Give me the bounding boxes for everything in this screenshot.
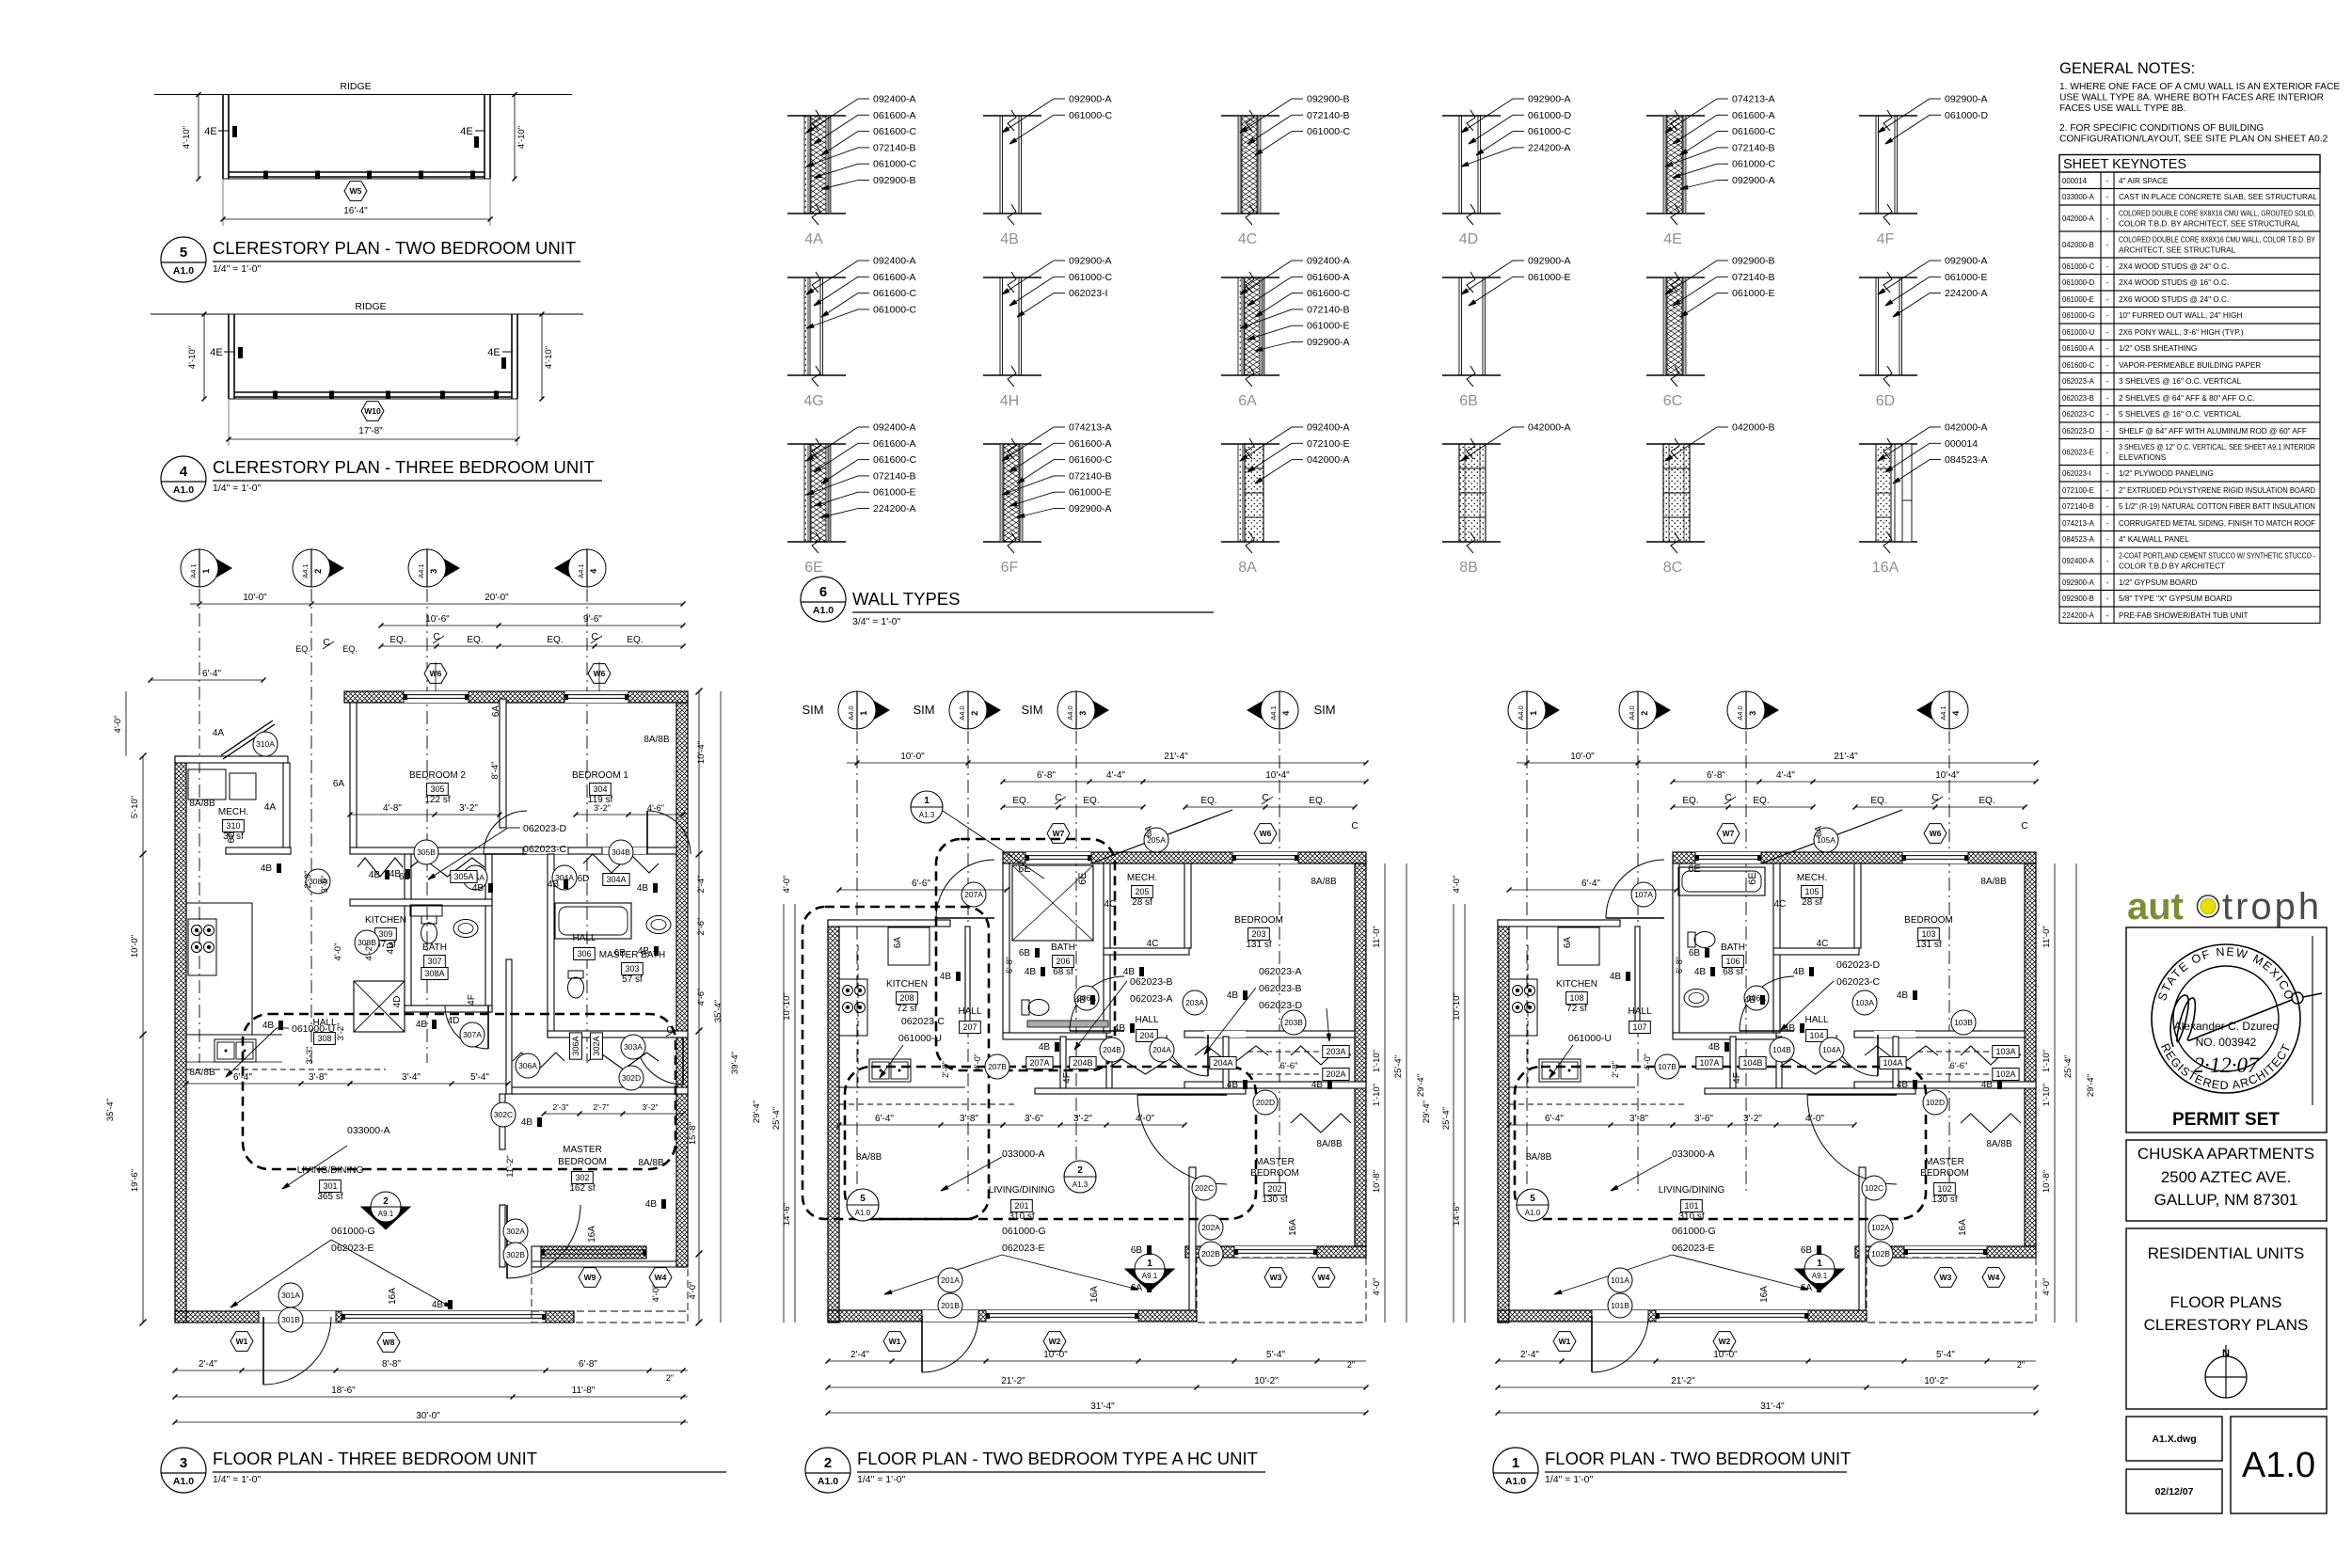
svg-text:042000-A: 042000-A [1528,422,1571,434]
svg-text:EQ.: EQ. [1083,796,1099,806]
svg-text:8A/8B: 8A/8B [189,1068,215,1078]
plan 3 right dims [666,689,740,1326]
svg-text:062023-C: 062023-C [901,1016,946,1027]
svg-text:207A: 207A [1029,1058,1049,1068]
svg-text:3'-2": 3'-2" [336,1023,346,1041]
svg-text:304B: 304B [612,847,630,857]
svg-text:107: 107 [1632,1022,1646,1032]
svg-text:2·12·07: 2·12·07 [2194,1053,2261,1077]
svg-text:3'-2": 3'-2" [1743,1114,1762,1124]
svg-text:A1.0: A1.0 [818,1476,838,1487]
clerestory plan 5 title [161,237,580,282]
svg-text:CORRUGATED METAL SIDING, FINIS: CORRUGATED METAL SIDING, FINISH TO MATCH… [2119,519,2315,528]
svg-text:204: 204 [1139,1031,1153,1040]
svg-text:30'-0": 30'-0" [416,1411,440,1421]
svg-text:CLERESTORY PLAN - THREE BEDROO: CLERESTORY PLAN - THREE BEDROOM UNIT [213,457,595,477]
svg-text:10'-4": 10'-4" [696,741,707,764]
svg-text:CHUSKA APARTMENTS: CHUSKA APARTMENTS [2137,1145,2314,1163]
svg-text:16A: 16A [1288,1219,1298,1236]
svg-text:104A: 104A [1822,1045,1841,1054]
svg-text:061000-U: 061000-U [898,1033,942,1044]
svg-text:062023-A: 062023-A [1259,966,1302,977]
svg-text:2: 2 [824,1455,832,1471]
svg-text:1: 1 [924,796,930,806]
svg-text:6A: 6A [1238,393,1257,409]
svg-text:130 sf: 130 sf [1262,1195,1287,1205]
svg-text:W1: W1 [236,1337,248,1346]
svg-text:033000-A: 033000-A [2062,193,2095,201]
svg-text:3'-0": 3'-0" [320,876,330,894]
svg-text:10'-0": 10'-0" [900,752,925,762]
svg-text:4B: 4B [548,879,560,890]
svg-text:3'-8": 3'-8" [960,1114,978,1124]
svg-text:061600-A: 061600-A [1069,438,1112,450]
svg-text:1/4" = 1'-0": 1/4" = 1'-0" [857,1474,905,1485]
svg-text:302A: 302A [506,1227,525,1236]
svg-text:4B: 4B [645,1199,658,1210]
svg-text:8A/8B: 8A/8B [1526,1152,1552,1163]
svg-text:224200-A: 224200-A [2062,611,2095,620]
svg-text:6'-4": 6'-4" [233,1072,252,1083]
svg-text:1: 1 [1817,1259,1822,1269]
svg-text:6'-4": 6'-4" [1545,1114,1564,1124]
wall type 4H [983,256,1113,410]
svg-text:4: 4 [1951,711,1961,716]
svg-text:4E: 4E [210,347,222,358]
plan 1 - two bedroom A1.0 ref circles [1517,1189,1549,1221]
svg-text:FLOOR PLAN - TWO BEDROOM TYPE: FLOOR PLAN - TWO BEDROOM TYPE A HC UNIT [857,1449,1258,1468]
svg-text:11'-8": 11'-8" [572,1386,596,1396]
svg-text:061600-C: 061600-C [2062,361,2095,370]
svg-text:042000-A: 042000-A [1945,422,1988,434]
svg-text:6A: 6A [1814,826,1824,838]
top dimension rows [190,603,683,605]
svg-text:-: - [2106,535,2109,544]
svg-text:EQ.: EQ. [467,635,483,645]
svg-text:SIM: SIM [913,703,934,717]
svg-text:31'-4": 31'-4" [1090,1402,1115,1412]
svg-text:4D: 4D [392,996,403,1008]
svg-text:29'-4": 29'-4" [752,1101,762,1123]
svg-text:061000-C: 061000-C [1307,126,1351,137]
svg-text:-: - [2106,214,2109,223]
svg-text:310: 310 [226,821,240,831]
svg-text:062023-D: 062023-D [2062,427,2095,436]
svg-text:092900-A: 092900-A [1069,94,1112,105]
svg-text:308: 308 [317,1034,331,1043]
svg-text:202D: 202D [1256,1098,1275,1107]
svg-text:1'-10": 1'-10" [2042,1084,2052,1106]
svg-text:WALL TYPES: WALL TYPES [852,589,960,609]
svg-text:6'-4": 6'-4" [1581,879,1600,889]
svg-text:104B: 104B [1742,1058,1762,1068]
svg-text:102B: 102B [1871,1249,1890,1259]
svg-text:A4.0: A4.0 [1628,705,1636,720]
plan 3 closet shelving zigzags [358,854,659,1069]
svg-text:6'-8": 6'-8" [1005,957,1014,974]
autotroph logo [2127,886,2322,927]
svg-text:305: 305 [430,784,444,794]
svg-text:5 1/2" (R-19) NATURAL COTTON F: 5 1/2" (R-19) NATURAL COTTON FIBER BATT … [2119,502,2315,511]
svg-text:2'-4": 2'-4" [1520,1350,1539,1360]
clerestory plan 4 - three bedroom unit [151,301,583,446]
svg-text:2 SHELVES @ 64" AFF & 80" AFF: 2 SHELVES @ 64" AFF & 80" AFF O.C. [2119,394,2255,403]
svg-text:6E: 6E [1688,863,1700,875]
svg-text:-: - [2106,557,2109,565]
svg-text:061000-G: 061000-G [1002,1226,1046,1237]
plan 1 - two bedroom wall tags [1526,826,2012,1303]
svg-text:2'-8": 2'-8" [941,1061,950,1078]
svg-text:4" KALWALL PANEL: 4" KALWALL PANEL [2119,535,2189,544]
svg-text:8A/8B: 8A/8B [638,1158,664,1168]
svg-text:303: 303 [625,964,639,974]
wall type 8A [1221,422,1350,577]
svg-text:1/4" = 1'-0": 1/4" = 1'-0" [213,483,261,494]
svg-text:224200-A: 224200-A [1945,288,1988,299]
svg-text:W7: W7 [1723,829,1735,838]
section marker 4 [555,549,606,587]
svg-text:SHEET KEYNOTES: SHEET KEYNOTES [2063,157,2186,172]
svg-text:310 sf: 310 sf [1009,1212,1034,1222]
plan 3 bottom dims [173,1268,689,1425]
svg-text:MECH.: MECH. [1797,873,1827,883]
svg-text:306A: 306A [518,1061,537,1070]
svg-text:35'-4": 35'-4" [105,1099,116,1121]
svg-text:072140-B: 072140-B [1307,110,1350,121]
svg-text:062023-A: 062023-A [1130,993,1173,1005]
svg-text:A1.X.dwg: A1.X.dwg [2152,1433,2196,1445]
svg-text:4A: 4A [213,728,225,738]
svg-text:4A: 4A [264,802,277,813]
svg-text:6'-6": 6'-6" [1280,1061,1298,1071]
svg-text:4B: 4B [638,946,650,957]
svg-text:107A: 107A [1634,890,1653,899]
svg-text:104A: 104A [1883,1058,1902,1068]
svg-text:307: 307 [427,957,441,966]
svg-text:COLOR T.B.D BY ARCHITECT: COLOR T.B.D BY ARCHITECT [2119,562,2225,571]
plan 2 - two bedroom type A HC room labels [886,873,1299,1222]
svg-text:4F: 4F [1877,231,1895,247]
plan 3 title [161,1448,726,1493]
svg-text:8A: 8A [1238,560,1257,576]
svg-text:107A: 107A [1699,1058,1719,1068]
plan 1 - two bedroom bottom dims [1496,1268,2039,1416]
svg-text:A1.0: A1.0 [2242,1446,2315,1485]
svg-text:305A: 305A [453,872,473,881]
svg-text:6B: 6B [1131,1245,1143,1256]
svg-text:28 sf: 28 sf [1802,897,1822,908]
svg-text:16A: 16A [1958,1219,1968,1236]
svg-text:4C: 4C [1104,899,1117,910]
svg-text:EQ.: EQ. [389,635,405,645]
svg-text:HALL: HALL [1135,1015,1158,1025]
svg-text:061000-U: 061000-U [292,1023,335,1035]
svg-text:W5: W5 [350,186,362,196]
svg-text:309: 309 [378,929,392,939]
plan 1 - two bedroom living arrows [1554,1157,1808,1294]
svg-text:061000-E: 061000-E [1732,288,1775,299]
svg-text:-: - [2106,449,2109,457]
svg-text:4'-0": 4'-0" [1805,1114,1824,1124]
svg-text:062023-E: 062023-E [1002,1243,1045,1254]
svg-text:102A: 102A [1871,1223,1890,1232]
svg-text:092900-B: 092900-B [2062,594,2094,603]
svg-text:4A: 4A [804,231,823,247]
svg-text:CLERESTORY PLANS: CLERESTORY PLANS [2144,1316,2309,1334]
svg-text:5 SHELVES @ 16" O.C. VERTICAL: 5 SHELVES @ 16" O.C. VERTICAL [2119,410,2242,419]
svg-text:6: 6 [819,584,827,600]
svg-text:303A: 303A [624,1042,643,1052]
svg-text:310A: 310A [256,739,275,749]
svg-text:3'-2": 3'-2" [594,803,611,813]
svg-text:103B: 103B [1954,1018,1973,1027]
plan 1 - two bedroom doors [1592,810,1902,1372]
svg-text:16A: 16A [388,1288,398,1305]
architect stamp box [2126,927,2327,1132]
svg-text:4F: 4F [1732,1072,1742,1084]
svg-text:4B: 4B [1227,990,1239,1001]
svg-text:061600-A: 061600-A [1732,110,1775,121]
plan 3 keynote leaders [226,823,567,1254]
svg-text:MECH.: MECH. [218,807,248,817]
plan 3 interior dims [184,762,686,1303]
svg-text:COLORED DOUBLE CORE 8X8X16 CMU: COLORED DOUBLE CORE 8X8X16 CMU WALL, COL… [2119,236,2315,245]
svg-text:NO. 003942: NO. 003942 [2196,1036,2257,1049]
svg-text:BEDROOM: BEDROOM [1920,1168,1969,1179]
svg-text:4'-0": 4'-0" [333,943,343,961]
svg-text:2": 2" [666,1373,674,1383]
plan 2 - two bedroom type A HC bath fixtures [1012,865,1108,1027]
svg-text:SIM: SIM [802,703,823,717]
plan 1 - two bedroom bath fixtures [1678,867,1765,1007]
wall type 4C [1221,94,1351,248]
svg-text:061000-C: 061000-C [1069,110,1113,121]
plan 2 - two bedroom type A HC keynote leaders [880,966,1330,1254]
svg-text:10'-4": 10'-4" [1265,770,1290,781]
svg-text:6B: 6B [614,948,627,958]
svg-text:107B: 107B [1658,1062,1677,1071]
svg-text:2'-4": 2'-4" [696,876,707,894]
plan 1 - two bedroom kitchen [1509,927,1686,1104]
svg-text:72 sf: 72 sf [897,1004,917,1014]
plan 2 - two bedroom type A HC A1.0 ref circles [847,791,1096,1221]
svg-text:8'-4": 8'-4" [490,762,501,780]
svg-text:4B: 4B [262,1021,275,1031]
wall type 4D [1442,94,1572,248]
svg-text:6B: 6B [399,872,411,882]
svg-text:RIDGE: RIDGE [355,301,386,312]
svg-text:1. WHERE ONE FACE OF A CMU WAL: 1. WHERE ONE FACE OF A CMU WALL IS AN EX… [2059,82,2340,92]
svg-text:3: 3 [429,569,438,574]
plan 2 - two bedroom type A HC interior walls [1003,863,1366,1310]
svg-text:2'-4": 2'-4" [199,1359,217,1370]
svg-text:306A: 306A [571,1036,580,1055]
svg-text:6A: 6A [1563,937,1573,949]
svg-text:072140-B: 072140-B [2062,502,2094,511]
svg-text:-: - [2106,410,2109,419]
svg-text:2'-3": 2'-3" [553,1102,569,1112]
svg-text:201: 201 [1014,1201,1028,1211]
svg-text:BEDROOM: BEDROOM [1250,1168,1299,1179]
svg-text:062023-E: 062023-E [2062,449,2094,457]
svg-text:061000-E: 061000-E [873,487,916,499]
svg-text:072140-B: 072140-B [1307,304,1350,315]
svg-text:11'-0": 11'-0" [2042,926,2052,948]
svg-text:2": 2" [2017,1360,2025,1370]
svg-text:062023-C: 062023-C [523,844,567,855]
svg-text:57 sf: 57 sf [622,974,643,985]
svg-text:-: - [2106,377,2109,386]
plan 3 boxed callouts [421,871,629,1060]
svg-text:6E: 6E [804,560,823,576]
svg-text:204B: 204B [1073,1058,1092,1068]
svg-text:4E: 4E [204,126,216,137]
svg-text:6C: 6C [1663,393,1682,409]
svg-text:2X4 WOOD STUDS @ 24" O.C.: 2X4 WOOD STUDS @ 24" O.C. [2119,262,2229,271]
svg-text:-: - [2106,295,2109,304]
svg-text:2X4 WOOD STUDS @ 16" O.C.: 2X4 WOOD STUDS @ 16" O.C. [2119,278,2229,287]
svg-text:062023-C: 062023-C [2062,410,2095,419]
svg-text:-: - [2106,262,2109,271]
svg-text:202C: 202C [1195,1183,1214,1193]
svg-text:2. FOR SPECIFIC CONDITIONS OF: 2. FOR SPECIFIC CONDITIONS OF BUILDING [2059,123,2264,134]
svg-text:301: 301 [323,1181,337,1191]
plan 3 interior walls [175,699,688,1267]
grid lines [856,731,858,1195]
svg-text:A4.0: A4.0 [847,705,855,720]
svg-text:1: 1 [1529,711,1538,716]
svg-text:3 SHELVES @ 12" O.C. VERTICAL,: 3 SHELVES @ 12" O.C. VERTICAL, SEE SHEET… [2119,443,2315,451]
svg-text:084523-A: 084523-A [2062,535,2095,544]
svg-text:4B: 4B [1708,1042,1721,1053]
svg-text:062023-I: 062023-I [1069,288,1107,299]
svg-text:W2: W2 [1049,1337,1061,1346]
svg-text:10" FURRED OUT WALL, 24" HIGH: 10" FURRED OUT WALL, 24" HIGH [2119,311,2242,320]
svg-text:061600-A: 061600-A [873,110,916,121]
svg-text:4B: 4B [1610,972,1622,982]
wall type 8C [1646,422,1775,577]
svg-text:A9.1: A9.1 [378,1210,394,1218]
svg-text:106: 106 [1725,957,1740,966]
svg-text:2'-9": 2'-9" [303,871,313,889]
plan 3 callout circles [253,732,645,1332]
wall types title [801,577,1214,627]
svg-text:A1.3: A1.3 [919,811,935,819]
svg-text:W1: W1 [1559,1337,1571,1346]
svg-text:4E: 4E [487,347,500,358]
plan 2 - two bedroom type A HC elevation marker [1125,1254,1174,1291]
svg-text:EQ.: EQ. [627,635,643,645]
svg-text:061600-C: 061600-C [1307,288,1351,299]
svg-text:10'-4": 10'-4" [1935,770,1960,781]
svg-text:061600-C: 061600-C [873,126,917,137]
svg-text:A9.1: A9.1 [1812,1272,1828,1280]
svg-text:FACES USE WALL TYPE 8B.: FACES USE WALL TYPE 8B. [2059,103,2185,114]
svg-text:061000-E: 061000-E [1945,272,1988,283]
svg-text:4H: 4H [1000,393,1019,409]
plan 2 - two bedroom type A HC bottom dims [826,1268,1369,1416]
svg-text:25'-4": 25'-4" [1393,1055,1404,1078]
svg-text:042000-B: 042000-B [1732,422,1775,434]
section markers [1508,691,1559,729]
svg-text:4B: 4B [1311,1080,1324,1090]
svg-text:2'-4": 2'-4" [850,1350,869,1360]
svg-text:062023-D: 062023-D [1259,1000,1303,1011]
svg-text:4B: 4B [1025,967,1037,977]
svg-text:062023-E: 062023-E [331,1243,374,1254]
svg-text:COLOR T.B.D. BY ARCHITECT, SEE: COLOR T.B.D. BY ARCHITECT, SEE STRUCTURA… [2119,220,2300,229]
svg-text:4B: 4B [940,972,952,982]
svg-text:-: - [2106,486,2109,495]
svg-text:5: 5 [1530,1194,1535,1204]
svg-text:6'-8": 6'-8" [1037,770,1056,781]
svg-text:C: C [2021,821,2027,832]
section markers [838,691,889,729]
svg-text:W3: W3 [1940,1273,1952,1282]
plan 1 - two bedroom boxed callouts [1696,1046,2021,1081]
svg-text:061600-A: 061600-A [873,272,916,283]
wall type 16A [1859,422,1988,577]
plan 3 wall type tags [189,705,670,1310]
svg-text:061000-C: 061000-C [1732,159,1776,170]
svg-text:6B: 6B [1689,948,1701,958]
svg-text:HALL: HALL [1804,1015,1828,1025]
svg-text:4B: 4B [1793,967,1805,977]
plan 1 - two bedroom room labels [1556,873,1969,1222]
svg-text:6A: 6A [1131,1283,1143,1293]
svg-text:A1.0: A1.0 [173,1476,194,1487]
svg-text:304A: 304A [606,875,626,884]
svg-text:4B: 4B [1897,990,1909,1001]
svg-text:4F: 4F [1062,1072,1073,1084]
svg-text:LIVING/DINING: LIVING/DINING [297,1165,364,1176]
svg-text:-: - [2106,241,2109,249]
svg-text:5'-10": 5'-10" [130,796,140,818]
svg-text:6E: 6E [1747,872,1758,884]
svg-text:062023-D: 062023-D [1836,959,1881,971]
svg-text:4B: 4B [1784,1023,1796,1034]
svg-text:072140-B: 072140-B [873,142,916,153]
floor plan 1 - two bedroom [1508,691,2039,1195]
svg-text:092400-A: 092400-A [873,422,916,434]
svg-text:1: 1 [1147,1259,1152,1269]
svg-text:3'-6": 3'-6" [1694,1114,1713,1124]
svg-text:305B: 305B [417,847,436,857]
svg-text:4B: 4B [1000,231,1019,247]
svg-text:6B: 6B [1801,1245,1813,1256]
svg-text:20'-0": 20'-0" [485,593,509,603]
svg-text:10'-0": 10'-0" [1570,752,1595,762]
wall type 8B [1442,422,1571,577]
svg-text:MASTER: MASTER [563,1145,602,1155]
svg-text:105: 105 [1804,887,1819,896]
svg-text:-: - [2106,278,2109,287]
svg-text:205: 205 [1135,887,1149,896]
wall type 4G [787,256,917,410]
wall type 6F [983,422,1113,577]
svg-text:000014: 000014 [2062,177,2088,185]
plan 3 closet X box [354,981,405,1032]
svg-text:6'-4": 6'-4" [875,1114,894,1124]
svg-text:A1.0: A1.0 [855,1209,871,1217]
svg-text:16A: 16A [1872,560,1899,576]
svg-text:074213-A: 074213-A [2062,519,2095,528]
svg-text:10'-0": 10'-0" [1043,1350,1068,1360]
svg-text:10'-0": 10'-0" [1713,1350,1738,1360]
svg-text:202: 202 [1267,1184,1281,1194]
svg-text:092900-A: 092900-A [1069,503,1112,515]
wall type 4E [1646,94,1776,248]
